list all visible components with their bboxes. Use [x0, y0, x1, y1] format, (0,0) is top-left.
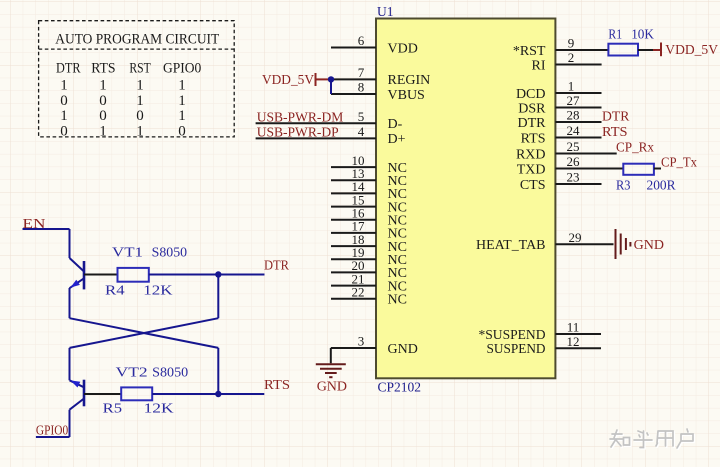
- pin 26 (TXD): [517, 154, 624, 177]
- svg-text:R1: R1: [608, 27, 622, 42]
- svg-text:25: 25: [567, 139, 580, 154]
- table data rows: [60, 78, 186, 140]
- svg-text:RTS: RTS: [91, 61, 115, 77]
- svg-text:RST: RST: [129, 61, 151, 77]
- svg-text:12: 12: [567, 334, 580, 349]
- pin 1 (DCD): [516, 79, 602, 102]
- svg-text:3: 3: [358, 334, 365, 349]
- svg-text:1: 1: [178, 93, 186, 109]
- power port VDD_5V (left): [262, 73, 331, 88]
- wire R3 to CP_Tx: [654, 168, 661, 170]
- svg-text:0: 0: [136, 108, 144, 124]
- svg-text:DCD: DCD: [516, 87, 546, 102]
- table header row DTR RTS RST GPIO0: [56, 61, 201, 77]
- svg-text:RTS: RTS: [521, 131, 546, 146]
- pin 12 (SUSPEND): [487, 334, 602, 357]
- svg-text:VT1: VT1: [112, 245, 143, 260]
- svg-text:U1: U1: [377, 4, 394, 19]
- junction dot RTS node: [215, 391, 221, 397]
- power port VDD_5V (right): [653, 43, 718, 59]
- svg-text:VDD_5V: VDD_5V: [665, 43, 718, 58]
- svg-text:28: 28: [567, 108, 580, 123]
- svg-text:0: 0: [178, 123, 186, 139]
- svg-text:1: 1: [99, 78, 107, 94]
- svg-text:VDD: VDD: [388, 41, 418, 56]
- pin 8 (VBUS): [331, 80, 425, 103]
- IC U1 CP2102 body: [376, 19, 555, 379]
- svg-text:12K: 12K: [143, 282, 173, 297]
- svg-text:S8050: S8050: [152, 365, 188, 380]
- svg-text:CP_Tx: CP_Tx: [661, 155, 697, 170]
- svg-text:23: 23: [567, 170, 580, 185]
- junction dot DTR node: [215, 271, 221, 277]
- svg-text:RTS: RTS: [264, 378, 290, 393]
- wire GPIO0 horizontal: [36, 436, 70, 438]
- svg-text:VBUS: VBUS: [388, 88, 425, 103]
- wire VBUS junction vertical: [330, 79, 332, 94]
- svg-text:RI: RI: [532, 58, 546, 73]
- svg-text:DTR: DTR: [602, 110, 630, 125]
- svg-text:26: 26: [567, 154, 581, 169]
- svg-text:*RST: *RST: [513, 44, 546, 59]
- net label EN: [23, 217, 70, 232]
- pin 6 (VDD): [331, 33, 418, 56]
- svg-text:24: 24: [567, 123, 581, 138]
- svg-text:1: 1: [136, 78, 144, 94]
- pin numbers 10-22: [352, 153, 366, 300]
- svg-text:S8050: S8050: [152, 245, 188, 260]
- svg-text:1: 1: [136, 93, 144, 109]
- wire right down to RTS node: [217, 348, 219, 394]
- svg-text:GPIO0: GPIO0: [36, 424, 68, 439]
- svg-text:NC: NC: [388, 293, 407, 308]
- svg-text:CTS: CTS: [520, 178, 546, 193]
- svg-text:VT2: VT2: [116, 365, 148, 380]
- svg-text:R5: R5: [103, 401, 123, 416]
- svg-text:0: 0: [99, 93, 107, 109]
- wire VT1 emitter down: [69, 288, 71, 318]
- svg-text:GND: GND: [317, 380, 347, 395]
- pin 25 (RXD) + net label CP_Rx: [516, 139, 654, 162]
- svg-text:10K: 10K: [631, 27, 654, 42]
- resistor R5: [103, 387, 174, 415]
- svg-text:REGIN: REGIN: [388, 73, 431, 88]
- pin 28 (DTR) + net label DTR: [518, 108, 630, 131]
- wire left down to VT2 emitter: [69, 348, 71, 380]
- svg-text:1: 1: [99, 123, 107, 139]
- wire R5 to RTS: [152, 393, 264, 395]
- svg-text:27: 27: [567, 93, 581, 108]
- net label USB-PWR-DP: [256, 124, 406, 147]
- svg-text:0: 0: [99, 108, 107, 124]
- pins 10-22 (NC): [331, 167, 376, 299]
- wire R4 to DTR: [149, 274, 265, 276]
- ground GND (signal ground below pin 3): [316, 364, 346, 377]
- svg-text:GND: GND: [634, 238, 664, 253]
- pin 7 (REGIN): [331, 65, 430, 88]
- junction dot at REGIN/VBUS: [328, 76, 334, 82]
- svg-text:22: 22: [352, 285, 365, 300]
- svg-text:GND: GND: [388, 342, 418, 357]
- svg-text:TXD: TXD: [517, 162, 546, 177]
- svg-text:*SUSPEND: *SUSPEND: [479, 328, 546, 343]
- net label USB-PWR-DM: [256, 109, 403, 132]
- svg-text:7: 7: [358, 65, 365, 80]
- wire VT2 collector down: [69, 410, 71, 437]
- svg-text:R3: R3: [616, 177, 631, 192]
- svg-text:0: 0: [60, 93, 68, 109]
- resistor R1: [608, 27, 654, 56]
- pin 29 (HEAT_TAB): [476, 230, 614, 253]
- svg-text:RXD: RXD: [516, 147, 546, 162]
- svg-text:R4: R4: [105, 282, 125, 297]
- wire cross diagonal left-to-right: [70, 318, 219, 348]
- wire R1 to VDD_5V: [638, 49, 653, 51]
- svg-text:29: 29: [569, 230, 582, 245]
- pin 11 (*SUSPEND): [479, 320, 602, 343]
- svg-text:1: 1: [568, 79, 575, 94]
- svg-text:AUTO PROGRAM CIRCUIT: AUTO PROGRAM CIRCUIT: [55, 31, 219, 47]
- wire cross diagonal right-to-left: [70, 318, 219, 348]
- svg-text:8: 8: [358, 80, 365, 95]
- svg-text:DTR: DTR: [518, 116, 547, 131]
- resistor R3: [616, 164, 676, 193]
- svg-text:12K: 12K: [144, 401, 174, 416]
- svg-text:1: 1: [178, 78, 186, 94]
- VT2 emitter arrow: [70, 380, 80, 387]
- svg-text:0: 0: [60, 123, 68, 139]
- wire pin3 to ground: [330, 348, 332, 363]
- transistor VT2: [70, 380, 85, 410]
- svg-text:1: 1: [178, 108, 186, 124]
- wire DTR node down: [217, 275, 219, 319]
- watermark "zhihu user" drawn as vector strokes: [610, 429, 694, 449]
- ground power GND (at HEAT_TAB): [616, 229, 631, 259]
- svg-text:GPIO0: GPIO0: [163, 61, 201, 77]
- wire VT1 base to R4: [84, 274, 118, 276]
- pin 24 (RTS) + net label RTS: [521, 123, 628, 146]
- pin 9 (*RST): [513, 36, 609, 59]
- truth table frame AUTO PROGRAM CIRCUIT: [39, 21, 235, 137]
- svg-text:CP2102: CP2102: [378, 380, 422, 395]
- wire EN down to VT1 collector: [69, 229, 71, 258]
- svg-text:5: 5: [358, 109, 365, 124]
- svg-text:9: 9: [568, 36, 575, 51]
- svg-text:D-: D-: [388, 117, 403, 132]
- svg-text:6: 6: [358, 33, 365, 48]
- resistor R4: [105, 268, 173, 297]
- pin 27 (DSR): [518, 93, 601, 116]
- pin names NC: [388, 161, 407, 308]
- svg-text:DSR: DSR: [518, 101, 546, 116]
- svg-text:VDD_5V: VDD_5V: [262, 73, 314, 88]
- transistor VT1: [70, 258, 85, 289]
- wire VT2 base to R5: [84, 393, 121, 395]
- svg-text:DTR: DTR: [56, 61, 81, 77]
- svg-text:1: 1: [136, 123, 144, 139]
- svg-text:RTS: RTS: [602, 125, 628, 140]
- pin 3 (GND): [331, 334, 418, 357]
- svg-text:1: 1: [60, 78, 68, 94]
- pin 23 (CTS): [520, 170, 602, 193]
- VT1 emitter arrow: [70, 280, 80, 288]
- svg-text:DTR: DTR: [264, 259, 290, 274]
- svg-text:11: 11: [567, 320, 580, 335]
- pin 2 (RI): [532, 50, 602, 73]
- svg-text:1: 1: [60, 108, 68, 124]
- svg-text:200R: 200R: [647, 177, 676, 192]
- svg-text:SUSPEND: SUSPEND: [487, 342, 546, 357]
- svg-text:2: 2: [568, 50, 575, 65]
- svg-text:CP_Rx: CP_Rx: [616, 141, 654, 156]
- svg-text:4: 4: [358, 124, 365, 139]
- svg-text:HEAT_TAB: HEAT_TAB: [476, 238, 546, 253]
- svg-text:D+: D+: [388, 132, 406, 147]
